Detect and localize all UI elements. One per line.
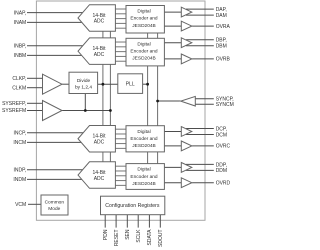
svg-text:SYNCM: SYNCM <box>216 102 234 108</box>
svg-text:Digital: Digital <box>137 167 150 173</box>
svg-text:ADC: ADC <box>94 52 105 58</box>
svg-text:OVRA: OVRA <box>216 24 231 30</box>
svg-text:OVRC: OVRC <box>216 144 231 150</box>
svg-text:Encoder and: Encoder and <box>130 48 158 54</box>
svg-text:JESD204B: JESD204B <box>132 143 155 149</box>
svg-text:SDOUT: SDOUT <box>158 230 164 248</box>
svg-text:Encoder and: Encoder and <box>130 174 158 180</box>
svg-text:INAM: INAM <box>14 20 27 26</box>
svg-text:DBM: DBM <box>216 43 227 49</box>
svg-text:PLL: PLL <box>126 82 135 88</box>
svg-text:SEN: SEN <box>125 229 131 240</box>
svg-text:SCLK: SCLK <box>136 229 142 243</box>
svg-text:Divide: Divide <box>77 78 91 84</box>
svg-text:Digital: Digital <box>137 129 150 135</box>
svg-text:Digital: Digital <box>137 41 150 47</box>
svg-text:Encoder and: Encoder and <box>130 16 158 22</box>
svg-text:ADC: ADC <box>94 19 105 25</box>
svg-text:Mode: Mode <box>48 206 60 212</box>
svg-text:SYSREFM: SYSREFM <box>2 108 26 114</box>
svg-text:JESD204B: JESD204B <box>132 23 155 29</box>
svg-text:Configuration Registers: Configuration Registers <box>105 203 160 209</box>
svg-text:INBP,: INBP, <box>14 43 26 49</box>
svg-text:ADC: ADC <box>94 140 105 146</box>
svg-text:Digital: Digital <box>137 9 150 15</box>
svg-text:CLKM: CLKM <box>12 85 26 91</box>
svg-text:SYSREFP,: SYSREFP, <box>2 101 26 107</box>
svg-text:DDM: DDM <box>216 168 227 174</box>
svg-text:RESET: RESET <box>114 230 120 247</box>
svg-text:INAP,: INAP, <box>14 10 26 16</box>
svg-text:JESD204B: JESD204B <box>132 181 155 187</box>
svg-text:OVRD: OVRD <box>216 180 231 186</box>
svg-text:OVRB: OVRB <box>216 57 231 63</box>
svg-text:INDM: INDM <box>13 177 26 183</box>
svg-text:PDN: PDN <box>103 229 109 240</box>
svg-text:INCP,: INCP, <box>13 130 26 136</box>
svg-text:DAM: DAM <box>216 13 227 19</box>
svg-text:SDATA: SDATA <box>147 229 153 246</box>
svg-text:INDP,: INDP, <box>13 167 26 173</box>
svg-text:VCM: VCM <box>15 202 26 208</box>
svg-text:CLKP,: CLKP, <box>12 76 26 82</box>
svg-text:Common: Common <box>45 200 65 206</box>
svg-text:INCM: INCM <box>13 140 26 146</box>
svg-text:JESD204B: JESD204B <box>132 56 155 62</box>
svg-text:INBM: INBM <box>14 53 27 59</box>
svg-text:DCM: DCM <box>216 132 227 138</box>
svg-text:Encoder and: Encoder and <box>130 136 158 142</box>
svg-text:ADC: ADC <box>94 176 105 182</box>
svg-text:by 1,2,4: by 1,2,4 <box>75 84 92 90</box>
